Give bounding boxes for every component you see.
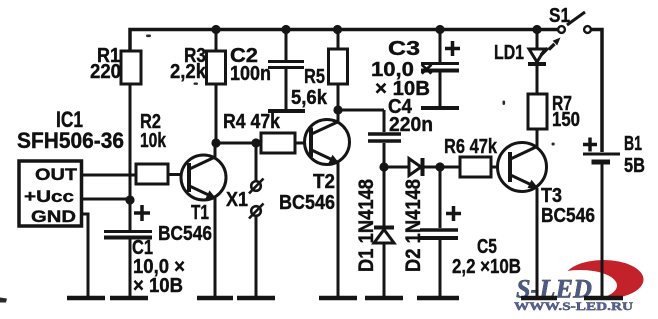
svg-text:R4 47k: R4 47k (223, 111, 281, 133)
svg-text:220n: 220n (389, 114, 433, 136)
wire GND pin (81, 214, 88, 296)
ground B1 (584, 296, 623, 301)
svg-text:T3: T3 (541, 185, 562, 207)
resistor R3 (207, 51, 226, 84)
wire R6 to T3 base (491, 166, 510, 169)
svg-text:220: 220 (90, 61, 121, 83)
wire +Ucc pin (81, 198, 130, 201)
wire R3 top (215, 30, 218, 52)
wire T1 emitter to ground (214, 198, 217, 296)
resistor R7 (528, 94, 547, 129)
wire R2 to T1 base (168, 173, 189, 176)
svg-text:T1: T1 (191, 202, 209, 224)
wire R4 to T2 base (295, 142, 311, 145)
svg-text:150: 150 (552, 109, 580, 131)
wire R3 to T1 collector (215, 84, 218, 143)
svg-text:10k: 10k (140, 130, 167, 152)
capacitor C4 (368, 110, 401, 167)
svg-text:BC546: BC546 (541, 205, 595, 227)
node Vcc filter junction (125, 195, 134, 204)
ground T2 (319, 296, 357, 301)
svg-text:S1: S1 (549, 5, 570, 27)
switch S1 (558, 12, 591, 33)
svg-text:D1 1N4148: D1 1N4148 (355, 179, 378, 272)
ground X1 (237, 296, 275, 301)
svg-text:5B: 5B (624, 155, 645, 177)
svg-text:BC546: BC546 (279, 192, 335, 214)
ground T1 (197, 296, 233, 301)
diode D2 (384, 158, 440, 176)
LED LD1 (528, 30, 561, 65)
node C2 rail (281, 25, 290, 34)
wire R5 bottom (337, 84, 340, 110)
speck (0, 35, 555, 303)
svg-text:WWW.S-LED.RU: WWW.S-LED.RU (514, 299, 633, 313)
resistor R1 (121, 51, 141, 84)
wire OUT pin (81, 174, 136, 177)
capacitor C2 (268, 30, 304, 110)
svg-text:D2 1N4148: D2 1N4148 (402, 179, 425, 272)
connector X1 (249, 143, 264, 296)
IC IC1 SFH506-36 box (19, 161, 82, 226)
ground IC (67, 296, 105, 301)
S-LED logo red crescent (543, 260, 644, 301)
wire T3 emitter to ground (536, 188, 539, 296)
capacitor C5 (420, 167, 461, 296)
node D2 output junction (435, 162, 444, 171)
svg-text:2,2 ×10B: 2,2 ×10B (452, 256, 521, 278)
wire T3 collector (536, 129, 539, 147)
svg-text:C5: C5 (477, 236, 497, 258)
resistor R5 (329, 49, 348, 84)
svg-text:T2: T2 (313, 171, 335, 193)
transistor T3 (498, 143, 547, 192)
ground C5 (417, 296, 459, 301)
node R5 rail (333, 25, 342, 34)
svg-text:X1: X1 (226, 189, 248, 211)
node LED rail (532, 25, 541, 34)
svg-text:BC546: BC546 (158, 223, 212, 245)
capacitor C3 (421, 30, 460, 107)
resistor R6 (440, 166, 460, 169)
resistor R2 (136, 164, 168, 184)
svg-text:SFH506-36: SFH506-36 (17, 128, 124, 153)
ground C1 (110, 296, 148, 301)
wire R5 top (337, 30, 340, 50)
node C3 rail (435, 25, 444, 34)
svg-text:2,2k: 2,2k (170, 61, 207, 83)
wire R7 top to LED (536, 66, 539, 94)
node R3 top rail (211, 25, 220, 34)
node detector junction (379, 162, 388, 171)
wire R1 to node (129, 84, 132, 200)
transistor T1 (181, 155, 226, 200)
capacitor C1 (104, 200, 152, 296)
node T1 collector junction (211, 138, 220, 147)
ground T3 (521, 296, 557, 301)
node T2 collector junction (333, 105, 342, 114)
wire switch to battery corner (592, 30, 603, 153)
svg-text:× 10B: × 10B (133, 275, 183, 297)
node X1 branch (251, 138, 260, 147)
wire base row to R4 (216, 142, 261, 145)
diode D1 (374, 167, 394, 296)
wire collector row to C4 (338, 109, 384, 112)
battery B1 (583, 138, 620, 297)
ground C3 (421, 106, 459, 110)
svg-text:5,6k: 5,6k (291, 87, 328, 109)
svg-text:R5: R5 (304, 66, 325, 88)
svg-text:100n: 100n (230, 63, 271, 85)
svg-text:LD1: LD1 (494, 42, 524, 64)
wire T2 emitter to ground (337, 162, 340, 296)
svg-text:R6 47k: R6 47k (444, 136, 498, 158)
transistor T2 (305, 120, 350, 165)
svg-text:GND: GND (31, 207, 76, 226)
ground D1 (365, 296, 403, 301)
svg-text:C3: C3 (388, 38, 420, 60)
resistor R4 (261, 133, 295, 153)
svg-text:+Ucc: +Ucc (24, 187, 74, 206)
wire Vcc top rail (130, 30, 558, 52)
wire T1 collector (214, 143, 217, 157)
svg-text:OUT: OUT (35, 165, 78, 184)
wire T2 collector (337, 110, 340, 122)
ground C2 (268, 109, 305, 113)
svg-text:B1: B1 (624, 133, 642, 155)
